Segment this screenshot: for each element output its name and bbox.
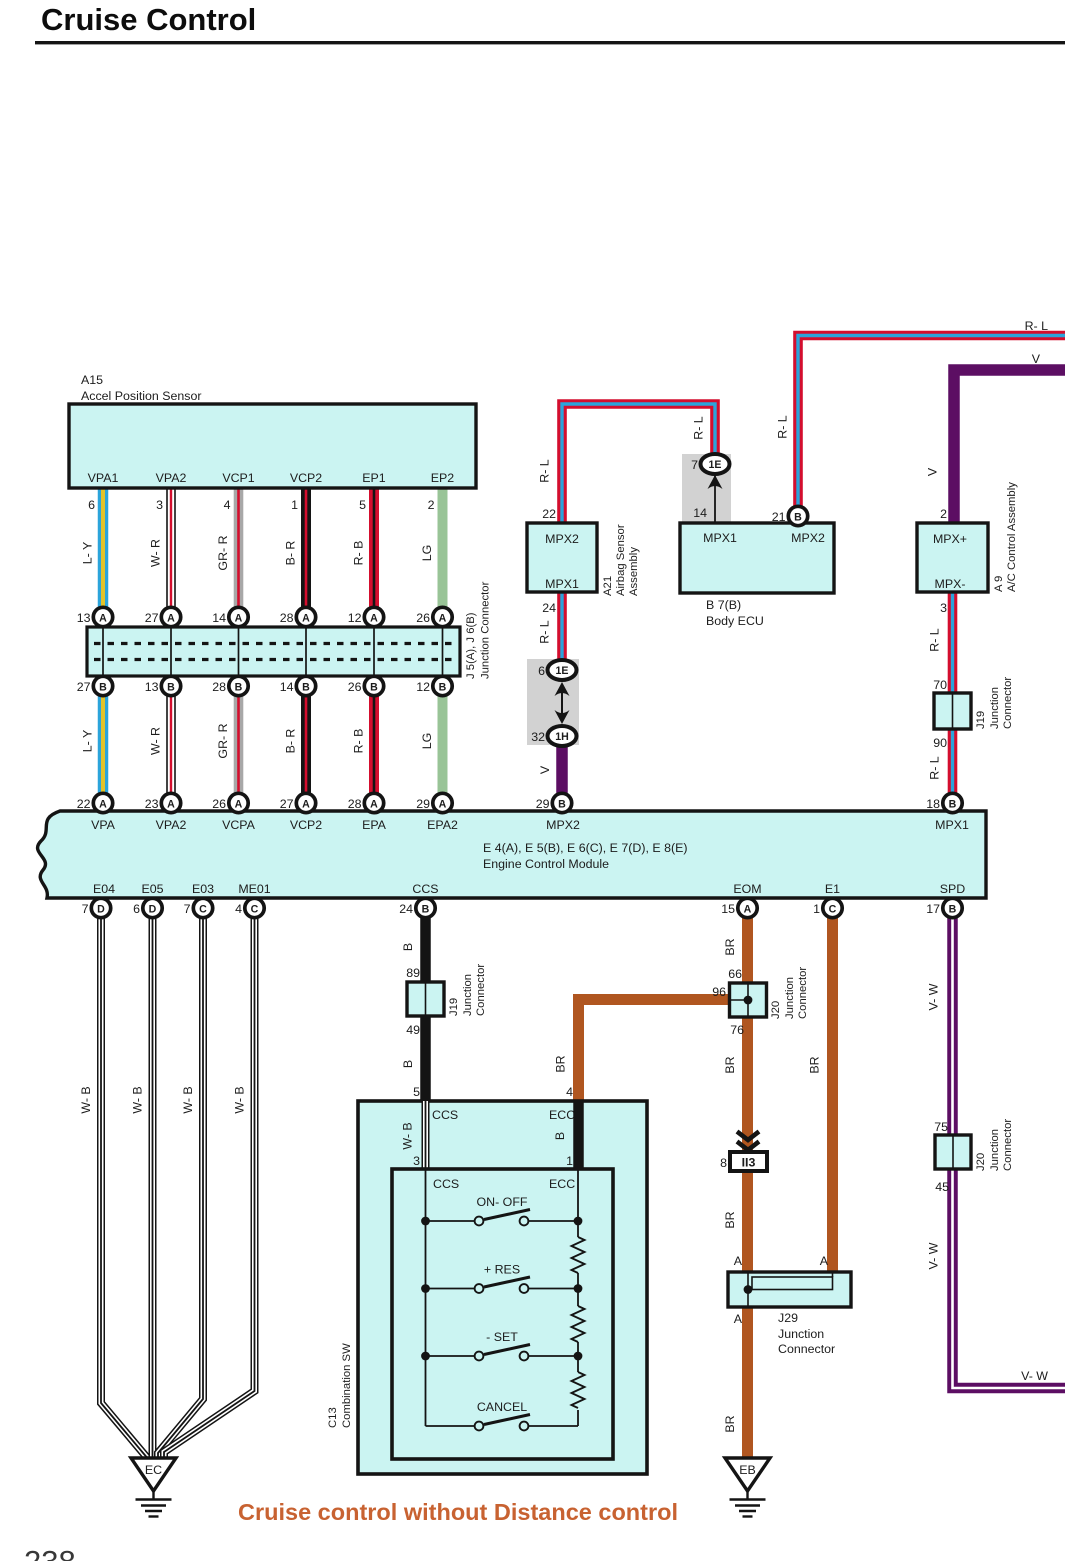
svg-text:- SET: - SET <box>486 1330 518 1344</box>
svg-text:BR: BR <box>808 1056 822 1073</box>
svg-text:VPA1: VPA1 <box>88 471 119 485</box>
wire VCP2 (B-R) from A15 pin to ECM <box>301 488 311 811</box>
svg-text:29: 29 <box>416 797 430 811</box>
svg-text:Junction: Junction <box>778 1327 824 1341</box>
svg-text:R- L: R- L <box>1025 319 1049 333</box>
svg-text:ECC: ECC <box>549 1177 575 1191</box>
svg-text:A: A <box>167 612 175 624</box>
svg-text:R- L: R- L <box>692 416 706 440</box>
svg-text:21: 21 <box>772 510 786 524</box>
svg-text:BR: BR <box>723 938 737 955</box>
svg-text:26: 26 <box>348 680 362 694</box>
switch CANCEL <box>426 1425 475 1427</box>
gray shade behind connectors 1E/1H (Airbag branch) <box>527 659 579 745</box>
svg-text:1: 1 <box>813 902 820 916</box>
svg-text:E 4(A), E 5(B), E 6(C), E 7(D): E 4(A), E 5(B), E 6(C), E 7(D), E 8(E) <box>483 841 687 855</box>
ECM top pins A (22,23,26,27,28,29) <box>93 793 112 812</box>
J5/J6 top pins (A) <box>93 607 112 626</box>
svg-text:R- L: R- L <box>538 459 552 483</box>
component A9 A/C Control Assembly <box>917 523 988 592</box>
svg-text:B: B <box>235 681 243 693</box>
connector II3 (pin 8) on EOM wire <box>730 1152 767 1171</box>
wire E04 (W-B) from ECM pin 7D to EC ground <box>101 898 147 1457</box>
ground EB <box>725 1458 770 1491</box>
connector 1H (pin 32) on airbag branch <box>548 726 577 746</box>
svg-text:B- R: B- R <box>284 729 298 754</box>
component A21 Airbag Sensor Assembly <box>527 523 597 592</box>
svg-text:4: 4 <box>566 1085 573 1099</box>
svg-text:B: B <box>949 798 957 810</box>
svg-text:28: 28 <box>212 680 226 694</box>
svg-text:14: 14 <box>280 680 294 694</box>
svg-text:W- B: W- B <box>401 1122 415 1149</box>
svg-text:J29: J29 <box>778 1311 798 1325</box>
svg-text:A21: A21 <box>602 576 614 596</box>
wire VCP1 (GR-R) from A15 pin to ECM <box>234 488 244 811</box>
svg-text:A: A <box>734 1312 743 1326</box>
svg-text:A: A <box>370 798 378 810</box>
connector 1E (pin 7) on Body ECU branch <box>701 454 730 474</box>
svg-text:24: 24 <box>542 601 556 615</box>
svg-text:LG: LG <box>420 733 434 750</box>
svg-text:VPA2: VPA2 <box>156 471 187 485</box>
svg-text:II3: II3 <box>742 1156 756 1170</box>
svg-text:W- R: W- R <box>149 727 163 755</box>
ECM pin 18 B (MPX1) <box>943 793 962 812</box>
svg-text:A: A <box>370 612 378 624</box>
svg-text:Junction: Junction <box>989 1129 1001 1171</box>
svg-text:22: 22 <box>542 507 556 521</box>
svg-text:LG: LG <box>420 545 434 562</box>
svg-text:A: A <box>302 612 310 624</box>
svg-text:27: 27 <box>145 611 159 625</box>
svg-text:C: C <box>829 903 837 915</box>
connector 1E (pin 6) on airbag branch <box>548 660 577 680</box>
svg-text:V: V <box>1032 352 1041 366</box>
gray shade behind connector 1E (Body ECU branch) <box>682 454 731 522</box>
svg-text:A: A <box>99 612 107 624</box>
svg-text:A: A <box>439 612 447 624</box>
svg-text:E05: E05 <box>141 882 163 896</box>
svg-text:13: 13 <box>145 680 159 694</box>
svg-text:ECC: ECC <box>549 1108 575 1122</box>
component B7(B) Body ECU <box>714 474 716 523</box>
svg-text:Junction: Junction <box>462 974 474 1016</box>
svg-text:B: B <box>439 681 447 693</box>
junction connector J5(A), J6(B) <box>87 627 460 676</box>
wire R-L trunk from right edge to Body ECU MPX2 <box>798 336 1065 507</box>
svg-text:28: 28 <box>348 797 362 811</box>
switch -SET <box>426 1355 475 1357</box>
svg-text:7: 7 <box>691 458 698 472</box>
svg-text:12: 12 <box>416 680 430 694</box>
svg-text:12: 12 <box>348 611 362 625</box>
svg-text:27: 27 <box>280 797 294 811</box>
svg-text:B- R: B- R <box>284 541 298 566</box>
svg-text:C: C <box>251 903 259 915</box>
combination SW inner contact box <box>392 1169 613 1459</box>
wire EOM (BR) from ECM pin 15 to EB ground <box>742 898 753 1458</box>
svg-text:EB: EB <box>739 1463 756 1477</box>
svg-text:3: 3 <box>413 1154 420 1168</box>
svg-text:Body ECU: Body ECU <box>706 614 764 628</box>
switch ON-OFF <box>426 1220 475 1222</box>
svg-text:2: 2 <box>940 507 947 521</box>
wire E1 (BR) from ECM pin 1 to J29 junction connector <box>827 898 838 1272</box>
J5/J6 bottom pins (B) <box>93 676 112 695</box>
svg-text:R- L: R- L <box>928 628 942 652</box>
svg-text:1E: 1E <box>556 665 569 677</box>
svg-text:MPX2: MPX2 <box>545 532 579 546</box>
svg-text:17: 17 <box>926 902 940 916</box>
svg-text:+ RES: + RES <box>484 1263 520 1277</box>
svg-text:E04: E04 <box>93 882 115 896</box>
svg-text:V: V <box>926 467 940 476</box>
svg-text:3: 3 <box>156 498 163 512</box>
svg-text:MPX2: MPX2 <box>546 818 580 832</box>
svg-text:V- W: V- W <box>927 983 941 1010</box>
svg-text:66: 66 <box>728 967 742 981</box>
svg-text:Engine Control Module: Engine Control Module <box>483 857 609 871</box>
wire EP2 (LG) from A15 pin to ECM <box>438 488 448 811</box>
svg-text:J20: J20 <box>975 1153 987 1171</box>
svg-text:75: 75 <box>934 1120 948 1134</box>
svg-text:7: 7 <box>184 902 191 916</box>
svg-text:A: A <box>99 798 107 810</box>
svg-text:J19: J19 <box>975 711 987 729</box>
svg-text:R- L: R- L <box>538 620 552 644</box>
svg-text:D: D <box>149 903 157 915</box>
svg-text:A: A <box>302 798 310 810</box>
svg-text:1: 1 <box>291 498 298 512</box>
svg-text:L- Y: L- Y <box>81 730 95 753</box>
svg-text:28: 28 <box>280 611 294 625</box>
svg-text:Connector: Connector <box>797 967 809 1019</box>
wire VPA1 (L-Y) from A15 pin to ECM <box>98 488 109 811</box>
svg-text:24: 24 <box>399 902 413 916</box>
svg-text:VCPA: VCPA <box>222 818 256 832</box>
resistor between -SET and CANCEL <box>572 1372 585 1408</box>
svg-text:A 9: A 9 <box>993 576 1005 592</box>
svg-text:13: 13 <box>77 611 91 625</box>
CCS rail inside switch <box>425 1169 427 1426</box>
svg-text:C: C <box>199 903 207 915</box>
svg-text:VPA: VPA <box>91 818 116 832</box>
ECC rail inside switch <box>577 1169 579 1237</box>
svg-text:BR: BR <box>723 1056 737 1073</box>
svg-text:8: 8 <box>720 1156 727 1170</box>
inter-connector arrows between 1E and 1H <box>561 684 563 722</box>
svg-text:15: 15 <box>721 902 735 916</box>
svg-text:26: 26 <box>416 611 430 625</box>
wire V trunk from right edge to A/C control assembly MPX+ <box>954 370 1065 523</box>
svg-text:Cruise control without Distanc: Cruise control without Distance control <box>238 1499 678 1525</box>
svg-text:SPD: SPD <box>940 882 966 896</box>
svg-text:CCS: CCS <box>432 1108 458 1122</box>
svg-text:70: 70 <box>933 678 947 692</box>
svg-text:22: 22 <box>77 797 91 811</box>
component C13 Combination SW outer box <box>358 1101 647 1474</box>
svg-text:B: B <box>553 1132 567 1140</box>
wire ECC B segment inside outer switch box <box>573 1101 584 1169</box>
svg-text:V- W: V- W <box>927 1242 941 1269</box>
svg-text:3: 3 <box>940 601 947 615</box>
wire SPD (V-W) from ECM pin 17 to right edge <box>953 898 1065 1388</box>
svg-text:V- W: V- W <box>1021 1369 1048 1383</box>
svg-text:VCP1: VCP1 <box>222 471 254 485</box>
resistor between +RES and -SET <box>572 1306 585 1342</box>
svg-text:Cruise Control: Cruise Control <box>41 2 256 37</box>
wire EP1 (R-B) from A15 pin to ECM <box>369 488 379 811</box>
svg-text:5: 5 <box>359 498 366 512</box>
svg-text:A: A <box>734 1254 743 1268</box>
svg-text:96: 96 <box>712 985 726 999</box>
svg-text:V: V <box>538 765 552 774</box>
svg-text:R- B: R- B <box>352 541 366 566</box>
svg-text:A15: A15 <box>81 373 103 387</box>
svg-text:W- B: W- B <box>233 1086 247 1113</box>
wire E05 (W-B) from ECM pin 6D to EC ground <box>149 898 157 1457</box>
svg-text:1E: 1E <box>709 459 722 471</box>
svg-text:1: 1 <box>566 1154 573 1168</box>
svg-text:90: 90 <box>933 736 947 750</box>
component Engine Control Module E4(A)..E8(E) <box>38 811 986 898</box>
svg-text:MPX-: MPX- <box>935 577 966 591</box>
svg-text:B: B <box>794 511 802 523</box>
svg-text:ME01: ME01 <box>238 882 270 896</box>
svg-text:B: B <box>422 903 430 915</box>
svg-text:76: 76 <box>730 1023 744 1037</box>
svg-text:23: 23 <box>145 797 159 811</box>
svg-text:1H: 1H <box>555 731 569 743</box>
svg-text:VPA2: VPA2 <box>156 818 187 832</box>
svg-text:R- B: R- B <box>352 729 366 754</box>
ground EC <box>131 1458 176 1491</box>
svg-text:Accel Position Sensor: Accel Position Sensor <box>81 389 202 403</box>
ECM bottom pins <box>91 898 110 917</box>
svg-text:W- B: W- B <box>131 1086 145 1113</box>
svg-text:Connector: Connector <box>1002 1119 1014 1171</box>
switch +RES <box>426 1288 475 1290</box>
svg-text:29: 29 <box>536 797 550 811</box>
svg-text:A: A <box>744 903 752 915</box>
svg-text:Junction: Junction <box>989 687 1001 729</box>
svg-text:Airbag Sensor: Airbag Sensor <box>615 524 627 596</box>
svg-text:A: A <box>167 798 175 810</box>
svg-text:B: B <box>370 681 378 693</box>
svg-text:89: 89 <box>406 966 420 980</box>
svg-text:Combination SW: Combination SW <box>341 1343 353 1428</box>
wire V from connector 1H to ECM MPX2 pin 29 <box>556 745 568 803</box>
svg-text:EPA: EPA <box>362 818 387 832</box>
svg-text:B 7(B): B 7(B) <box>706 598 741 612</box>
svg-text:EOM: EOM <box>733 882 761 896</box>
svg-text:32: 32 <box>531 730 545 744</box>
svg-text:BR: BR <box>723 1415 737 1432</box>
svg-text:5: 5 <box>413 1085 420 1099</box>
wire ME01 (W-B) from ECM pin 4C to EC ground <box>164 898 255 1457</box>
svg-text:A: A <box>439 798 447 810</box>
svg-text:B: B <box>167 681 175 693</box>
svg-text:CCS: CCS <box>433 1177 459 1191</box>
svg-text:J19: J19 <box>448 998 460 1016</box>
wire E03 (W-B) from ECM pin 7C to EC ground <box>158 898 203 1457</box>
svg-text:MPX2: MPX2 <box>791 531 825 545</box>
svg-text:B: B <box>99 681 107 693</box>
pin 21 B circle on Body ECU MPX2 <box>788 506 807 525</box>
svg-text:49: 49 <box>406 1023 420 1037</box>
svg-text:Connector: Connector <box>1002 677 1014 729</box>
svg-text:6: 6 <box>88 498 95 512</box>
svg-text:L- Y: L- Y <box>81 542 95 565</box>
svg-text:A/C Control Assembly: A/C Control Assembly <box>1006 482 1018 592</box>
svg-text:W- B: W- B <box>181 1086 195 1113</box>
svg-text:Junction: Junction <box>784 977 796 1019</box>
svg-text:EPA2: EPA2 <box>427 818 458 832</box>
wire CCS (B / W-B) from ECM pin 24 to combination switch <box>420 898 431 1101</box>
svg-text:Connector: Connector <box>778 1342 835 1356</box>
svg-text:4: 4 <box>224 498 231 512</box>
wire R-L from airbag sensor MPX2 to connector 1E <box>562 404 715 523</box>
svg-text:B: B <box>302 681 310 693</box>
svg-text:J 5(A), J 6(B): J 5(A), J 6(B) <box>465 612 477 679</box>
svg-text:B: B <box>949 903 957 915</box>
svg-text:2: 2 <box>428 498 435 512</box>
svg-text:MPX1: MPX1 <box>545 577 579 591</box>
svg-text:R- L: R- L <box>776 415 790 439</box>
svg-text:EP2: EP2 <box>431 471 455 485</box>
svg-text:6: 6 <box>538 664 545 678</box>
svg-text:CCS: CCS <box>412 882 438 896</box>
svg-text:Junction Connector: Junction Connector <box>480 581 492 679</box>
svg-text:18: 18 <box>926 797 940 811</box>
svg-text:26: 26 <box>212 797 226 811</box>
svg-text:14: 14 <box>693 506 707 520</box>
svg-text:VCP2: VCP2 <box>290 471 322 485</box>
svg-text:E1: E1 <box>825 882 840 896</box>
wire VPA2 (W-R) from A15 pin to ECM <box>166 488 176 811</box>
svg-text:A: A <box>820 1254 829 1268</box>
svg-text:B: B <box>401 943 415 951</box>
svg-text:238: 238 <box>24 1544 76 1561</box>
svg-text:14: 14 <box>212 611 226 625</box>
svg-text:R- L: R- L <box>928 756 942 780</box>
svg-text:C13: C13 <box>327 1407 339 1428</box>
svg-text:45: 45 <box>935 1180 949 1194</box>
resistor between ON-OFF and +RES <box>572 1237 585 1273</box>
svg-text:E03: E03 <box>192 882 214 896</box>
svg-text:GR- R: GR- R <box>216 535 230 570</box>
wire ECC (BR / B) from J20 junction connector to combination switch <box>579 1000 731 1102</box>
svg-text:J20: J20 <box>770 1001 782 1019</box>
wire R-L from airbag sensor MPX1 to connector 1E <box>557 592 567 660</box>
svg-text:EP1: EP1 <box>362 471 386 485</box>
svg-text:MPX1: MPX1 <box>935 818 969 832</box>
svg-text:BR: BR <box>554 1055 568 1072</box>
svg-text:Assembly: Assembly <box>628 547 640 596</box>
svg-text:6: 6 <box>133 902 140 916</box>
ECM pin 29 B (MPX2) <box>552 793 571 812</box>
svg-text:CANCEL: CANCEL <box>477 1400 527 1414</box>
svg-text:4: 4 <box>235 902 242 916</box>
svg-text:27: 27 <box>77 680 91 694</box>
svg-text:D: D <box>97 903 105 915</box>
svg-text:ON- OFF: ON- OFF <box>477 1195 528 1209</box>
wire R-L from A/C assembly MPX- to ECM MPX1 pin 18 <box>948 592 958 803</box>
svg-text:W- R: W- R <box>149 539 163 567</box>
svg-text:Connector: Connector <box>475 964 487 1016</box>
svg-text:MPX+: MPX+ <box>933 532 967 546</box>
svg-text:EC: EC <box>145 1463 162 1477</box>
svg-text:7: 7 <box>82 902 89 916</box>
svg-text:MPX1: MPX1 <box>703 531 737 545</box>
wire CCS W-B segment inside outer switch box <box>422 1101 430 1169</box>
svg-text:A: A <box>235 798 243 810</box>
svg-text:W- B: W- B <box>79 1086 93 1113</box>
shield chevrons on EOM wire <box>737 1132 759 1141</box>
svg-text:B: B <box>401 1060 415 1068</box>
svg-text:VCP2: VCP2 <box>290 818 322 832</box>
svg-text:A: A <box>235 612 243 624</box>
svg-text:GR- R: GR- R <box>216 723 230 758</box>
svg-text:BR: BR <box>723 1211 737 1228</box>
svg-text:B: B <box>558 798 566 810</box>
